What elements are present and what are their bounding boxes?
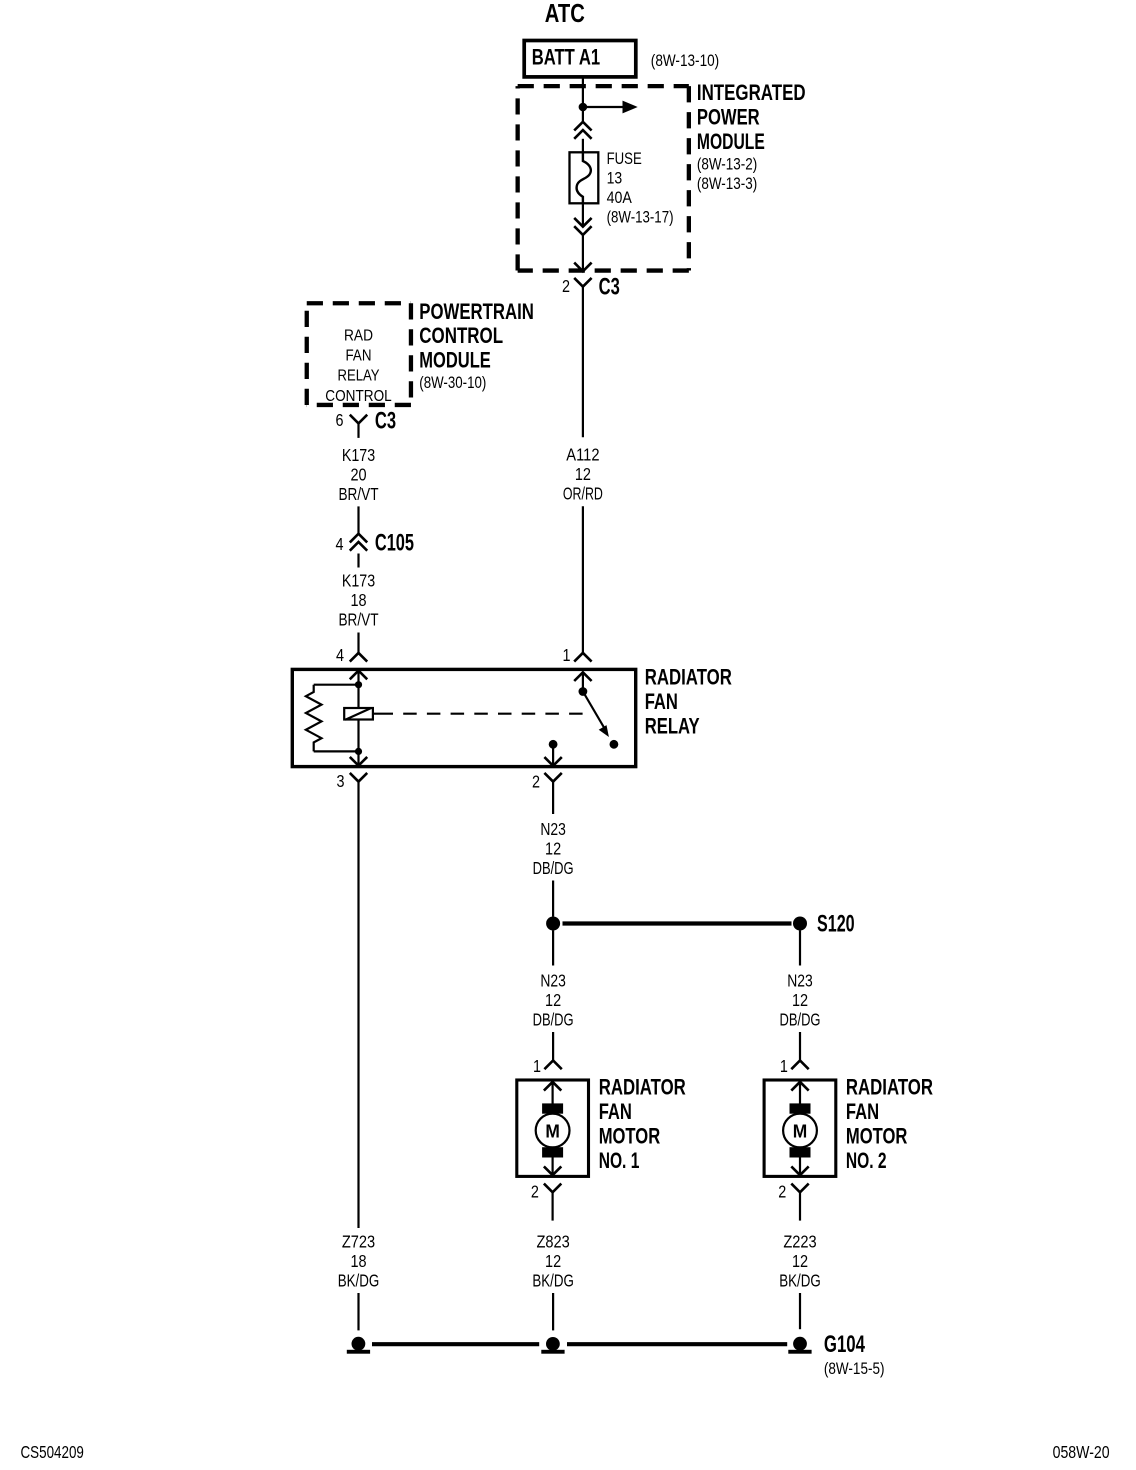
- svg-text:12: 12: [545, 839, 561, 859]
- motor 2 wire to bottom arrow: [799, 1158, 801, 1176]
- wire to relay pin 4: [357, 633, 359, 653]
- motor 2 terminal block bottom: [790, 1147, 811, 1157]
- motor 1 armature circle M: [536, 1114, 570, 1148]
- wire below motor 2: [799, 1192, 801, 1220]
- wire Z223 to ground: [799, 1293, 801, 1329]
- svg-text:RELAY: RELAY: [338, 368, 380, 385]
- svg-text:NO. 1: NO. 1: [599, 1148, 640, 1173]
- junction dot coil top: [355, 681, 362, 688]
- splice S120 dot left: [546, 917, 560, 931]
- svg-text:MOTOR: MOTOR: [846, 1123, 908, 1148]
- powertrain control module box (dashed): [307, 301, 411, 305]
- svg-text:INTEGRATED: INTEGRATED: [697, 80, 806, 105]
- motor 1 internal bottom arrow: [544, 1166, 561, 1175]
- svg-text:K173: K173: [342, 445, 375, 465]
- wire BATT A1 to fuse: [582, 77, 584, 121]
- wire K173 upper: [357, 423, 359, 438]
- switch pivot dot: [579, 687, 588, 696]
- relay pin 1 internal chevron: [574, 672, 591, 681]
- svg-text:2: 2: [532, 771, 540, 791]
- wire Z723 to ground: [357, 1293, 359, 1330]
- svg-text:FAN: FAN: [645, 689, 678, 714]
- svg-text:RADIATOR: RADIATOR: [846, 1074, 933, 1099]
- svg-text:DB/DG: DB/DG: [780, 1010, 821, 1030]
- svg-text:FAN: FAN: [846, 1099, 879, 1124]
- pin 2 female connector symbol: [544, 773, 561, 782]
- svg-text:A112: A112: [566, 444, 599, 464]
- pin 3 female connector symbol: [350, 773, 367, 782]
- pin 2 female connector symbol (motor 1): [544, 1184, 561, 1193]
- svg-text:18: 18: [350, 1251, 366, 1271]
- svg-text:1: 1: [563, 645, 571, 665]
- svg-text:CONTROL: CONTROL: [419, 323, 503, 348]
- svg-text:M: M: [793, 1120, 808, 1141]
- svg-text:(8W-15-5): (8W-15-5): [824, 1359, 885, 1378]
- svg-text:12: 12: [545, 1251, 561, 1271]
- power source box BATT A1: [524, 41, 636, 77]
- ground symbol right G104: [793, 1337, 807, 1351]
- relay pin 4 internal chevron: [350, 671, 367, 680]
- svg-text:BR/VT: BR/VT: [339, 609, 379, 629]
- svg-text:(8W-13-2): (8W-13-2): [697, 155, 757, 174]
- pin 1 male connector symbol (motor 1): [544, 1061, 561, 1070]
- wire to C105: [357, 506, 359, 533]
- svg-text:Z723: Z723: [342, 1231, 375, 1251]
- svg-text:FUSE: FUSE: [607, 149, 642, 168]
- motor 2 internal top chevron: [791, 1082, 808, 1091]
- svg-text:Z823: Z823: [536, 1231, 569, 1251]
- motor 1 terminal block top: [542, 1103, 563, 1113]
- svg-text:BATT A1: BATT A1: [532, 45, 600, 70]
- svg-text:18: 18: [350, 590, 366, 610]
- wire coil-top to resistor: [314, 684, 359, 686]
- pin 4 male connector symbol: [350, 653, 367, 662]
- svg-text:BK/DG: BK/DG: [532, 1270, 574, 1290]
- svg-text:RAD: RAD: [344, 328, 373, 345]
- svg-text:(8W-30-10): (8W-30-10): [419, 373, 486, 392]
- connector C3 symbol (female Y): [574, 278, 591, 287]
- svg-text:DB/DG: DB/DG: [533, 1010, 574, 1030]
- switch blade with arrowhead: [583, 692, 604, 729]
- svg-text:MODULE: MODULE: [419, 348, 491, 373]
- svg-text:4: 4: [336, 645, 344, 665]
- relay pin 3 internal arrow: [357, 751, 359, 765]
- motor 2 terminal block top: [790, 1103, 811, 1113]
- svg-text:BK/DG: BK/DG: [338, 1270, 380, 1290]
- svg-text:ATC: ATC: [545, 0, 585, 28]
- svg-text:12: 12: [545, 990, 561, 1010]
- svg-text:MODULE: MODULE: [697, 129, 765, 154]
- svg-text:(8W-13-10): (8W-13-10): [651, 51, 719, 70]
- wire N23 to motor 2: [799, 1032, 801, 1061]
- motor 1 wire to bottom arrow: [551, 1158, 553, 1176]
- ground symbol left: [352, 1337, 366, 1351]
- svg-text:C105: C105: [375, 530, 414, 557]
- svg-text:13: 13: [607, 169, 623, 188]
- radiator fan motor no. 2 box: [764, 1080, 836, 1176]
- switch contact dot: [610, 740, 619, 749]
- splice S120 dot right: [793, 917, 807, 931]
- svg-text:G104: G104: [824, 1331, 866, 1358]
- svg-text:RADIATOR: RADIATOR: [645, 665, 732, 690]
- svg-text:S120: S120: [817, 911, 855, 938]
- svg-text:RELAY: RELAY: [645, 713, 700, 738]
- connector C3 symbol at PCM (female Y): [350, 415, 367, 424]
- svg-text:N23: N23: [787, 971, 813, 991]
- svg-text:1: 1: [780, 1056, 788, 1076]
- svg-text:MOTOR: MOTOR: [599, 1123, 661, 1148]
- svg-text:BR/VT: BR/VT: [339, 484, 379, 504]
- junction dot (IPM feed): [579, 103, 588, 112]
- fuse F13 40A (box with element): [570, 152, 599, 203]
- wire Z823 to ground: [552, 1293, 554, 1330]
- wire fuse to connector chevrons: [582, 204, 584, 226]
- svg-text:1: 1: [533, 1056, 541, 1076]
- svg-text:POWERTRAIN: POWERTRAIN: [419, 299, 534, 324]
- branch arrow (feed to other circuits): [583, 106, 623, 108]
- wire resistor to coil-bottom: [314, 750, 359, 752]
- svg-text:12: 12: [575, 464, 591, 484]
- ground bus segment left: [372, 1342, 539, 1346]
- svg-text:6: 6: [336, 410, 344, 430]
- svg-text:RADIATOR: RADIATOR: [599, 1074, 686, 1099]
- wire chevrons to fuse: [582, 139, 584, 153]
- inline connector chevrons (up): [574, 122, 591, 131]
- junction dot coil bottom: [355, 748, 362, 755]
- svg-text:12: 12: [792, 990, 808, 1010]
- wire below motor 1: [551, 1192, 553, 1220]
- inline connector chevrons (down): [574, 218, 591, 227]
- splice bus S120: [563, 921, 792, 925]
- motor 2 wire to terminal: [799, 1082, 801, 1104]
- integrated power module box (dashed): [518, 84, 689, 88]
- arrowhead at IPM edge (open V): [574, 263, 591, 272]
- wire below C105: [357, 554, 359, 568]
- svg-text:12: 12: [792, 1251, 808, 1271]
- svg-text:2: 2: [531, 1182, 539, 1202]
- wire chevrons to IPM edge: [582, 235, 584, 271]
- svg-text:2: 2: [562, 276, 570, 296]
- wire A112 upper: [582, 287, 584, 438]
- ground bus segment right: [567, 1342, 787, 1346]
- wire N23 to splice: [552, 782, 554, 814]
- svg-text:(8W-13-3): (8W-13-3): [697, 174, 757, 193]
- svg-text:CS504209: CS504209: [21, 1442, 84, 1462]
- motor 2 internal bottom arrow: [791, 1166, 808, 1175]
- svg-text:FAN: FAN: [599, 1099, 632, 1124]
- ground symbol middle: [546, 1337, 560, 1351]
- radiator fan motor no. 1 box: [517, 1080, 589, 1176]
- wire pin1 to switch pivot: [582, 672, 584, 691]
- svg-text:C3: C3: [375, 408, 396, 435]
- wire into splice: [552, 881, 554, 917]
- svg-text:N23: N23: [540, 819, 566, 839]
- svg-text:BK/DG: BK/DG: [779, 1270, 821, 1290]
- svg-text:CONTROL: CONTROL: [325, 388, 391, 405]
- svg-text:3: 3: [337, 771, 345, 791]
- motor 1 wire to terminal: [551, 1082, 553, 1104]
- connector C105 chevrons: [350, 534, 367, 543]
- wire N23 to motor 1: [552, 1032, 554, 1061]
- svg-text:Z223: Z223: [783, 1231, 816, 1251]
- svg-text:POWER: POWER: [697, 105, 760, 130]
- svg-text:FAN: FAN: [346, 348, 372, 365]
- motor 1 terminal block bottom: [542, 1147, 563, 1157]
- svg-text:N23: N23: [540, 971, 566, 991]
- svg-text:K173: K173: [342, 570, 375, 590]
- pin 1 male connector symbol: [574, 653, 591, 662]
- svg-text:20: 20: [350, 464, 366, 484]
- relay box (RADIATOR FAN RELAY): [292, 669, 635, 766]
- relay pin 2 internal arrow: [552, 744, 554, 766]
- svg-text:DB/DG: DB/DG: [533, 858, 574, 878]
- wire pin4 to coil node: [357, 671, 359, 685]
- wire splice to N23 label (motor 2): [799, 931, 801, 966]
- svg-text:4: 4: [336, 534, 344, 554]
- relay pin 2 internal dot: [549, 740, 558, 749]
- motor 2 armature circle M: [783, 1114, 817, 1148]
- resistor (relay coil suppression): [306, 685, 322, 752]
- wire Z723 long: [357, 782, 359, 1228]
- svg-text:2: 2: [778, 1182, 786, 1202]
- svg-text:NO. 2: NO. 2: [846, 1148, 887, 1173]
- wire A112 lower: [582, 506, 584, 653]
- pin 1 male connector symbol (motor 2): [791, 1061, 808, 1070]
- svg-text:OR/RD: OR/RD: [563, 483, 603, 503]
- relay coil symbol (box with slash): [357, 685, 359, 752]
- pin 2 female connector symbol (motor 2): [791, 1184, 808, 1193]
- svg-text:40A: 40A: [607, 188, 633, 207]
- svg-text:M: M: [545, 1120, 560, 1141]
- svg-text:C3: C3: [599, 274, 620, 301]
- wire splice to N23 label (motor 1): [552, 931, 554, 966]
- relay control dashed link: [374, 713, 592, 715]
- svg-text:(8W-13-17): (8W-13-17): [607, 208, 674, 227]
- motor 1 internal top chevron: [544, 1082, 561, 1091]
- svg-text:058W-20: 058W-20: [1053, 1442, 1110, 1462]
